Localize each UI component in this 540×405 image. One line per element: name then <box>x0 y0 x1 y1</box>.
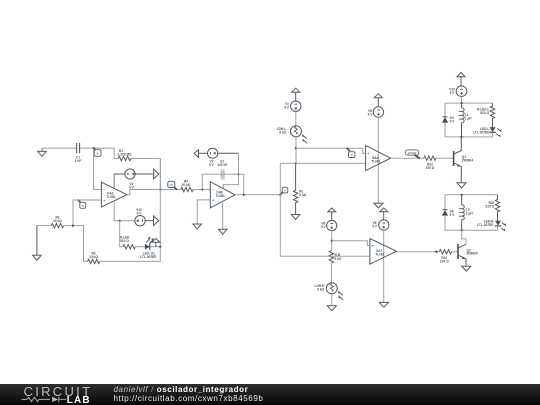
inductor L1 <box>459 103 464 137</box>
LED LED-R <box>477 220 506 232</box>
svg-text:2N3904: 2N3904 <box>467 252 478 256</box>
voltage source V3 <box>291 101 301 111</box>
ground <box>33 226 42 261</box>
wire <box>295 137 297 164</box>
resistor R12 <box>439 250 451 254</box>
junction <box>279 194 281 196</box>
svg-text:V1: V1 <box>81 204 85 208</box>
FOOTER <box>0 384 540 405</box>
wire (upper box left edge) <box>444 103 446 116</box>
wire (V8 supply through OA7) <box>383 230 385 302</box>
junction <box>237 173 239 175</box>
wire <box>436 157 453 159</box>
capacitor C1 <box>77 143 80 153</box>
svg-text:100 Ω: 100 Ω <box>426 166 435 170</box>
ground <box>193 224 202 229</box>
svg-text:HPWM: HPWM <box>408 151 417 155</box>
voltage source V1 <box>114 169 159 188</box>
resistor R2 <box>51 223 63 227</box>
voltage source V8 <box>379 220 389 230</box>
svg-text:+: + <box>103 199 105 203</box>
capacitor C2 <box>217 160 227 180</box>
svg-text:9 V: 9 V <box>321 225 327 229</box>
wire <box>452 251 458 253</box>
node Vt2 flag <box>347 148 355 158</box>
wire <box>80 148 118 158</box>
resistor R20 <box>495 195 499 222</box>
svg-text:9 V: 9 V <box>209 163 215 167</box>
wire (upper box right edge bottom) <box>492 133 494 137</box>
voltage source V2 <box>199 148 239 158</box>
svg-text:−: − <box>103 188 105 192</box>
svg-text:+: + <box>367 152 369 156</box>
svg-text:+: + <box>372 244 374 248</box>
UPPER RIGHT SECTION <box>277 88 473 219</box>
ground <box>457 183 466 188</box>
svg-text:LTL-307EE: LTL-307EE <box>140 255 156 259</box>
wire (to OA7 + input) <box>332 241 370 246</box>
wire <box>64 226 88 262</box>
resistor RL <box>293 163 297 214</box>
wire (to OA6 + input) <box>296 148 366 153</box>
junction <box>72 225 74 227</box>
node Vt flag <box>280 187 287 194</box>
V+ arrow... wire (lower box top edge) <box>445 194 498 196</box>
LED LED_A1 <box>140 237 156 259</box>
wire <box>193 189 210 191</box>
transistor Q2 <box>458 244 478 266</box>
wire (bus to OA7 - input, crossing R-B) <box>280 255 370 257</box>
svg-text:9 V: 9 V <box>450 119 456 123</box>
junction <box>295 162 297 164</box>
svg-text:510 Ω: 510 Ω <box>120 239 129 243</box>
resistor R-B <box>329 251 333 263</box>
wire (inverting node up to C2) <box>202 174 221 189</box>
wire (V5 supply through OA6) <box>377 117 379 203</box>
svg-text:Vt: Vt <box>284 189 287 193</box>
photoresistor LDR-R <box>326 283 343 300</box>
port arrow (V2 left terminal) <box>194 150 198 158</box>
wire anchor arrow <box>434 250 437 253</box>
resistor R3 <box>88 259 100 263</box>
wire (upper box top edge) <box>445 102 493 104</box>
op-amp OA2 top supply wire <box>113 174 115 188</box>
svg-text:1 µH: 1 µH <box>466 211 473 215</box>
wire (bus corner to OA6 - input) <box>280 162 365 164</box>
V+ arrow (V10) <box>457 72 465 86</box>
wire <box>444 216 446 231</box>
svg-text:9 V: 9 V <box>284 106 290 110</box>
resistor R-LED <box>123 245 135 249</box>
junction <box>461 194 463 196</box>
LEFT SECTION <box>33 143 181 264</box>
svg-text:LAB: LAB <box>67 395 91 405</box>
ground <box>462 266 471 271</box>
junction <box>159 246 161 248</box>
photoresistor LDR-L <box>291 126 308 144</box>
svg-text:9 V: 9 V <box>450 91 456 95</box>
wire <box>150 246 160 248</box>
wire (lower box right edge bottom) <box>497 227 499 231</box>
wire <box>444 123 446 137</box>
svg-text:9 V: 9 V <box>450 213 456 217</box>
svg-text:510 Ω: 510 Ω <box>480 111 489 115</box>
wire (R1 to output bus) <box>131 159 161 190</box>
junction <box>460 102 462 104</box>
op-amp OA8 bottom supply wire <box>222 203 224 230</box>
resistor R4 <box>181 187 193 191</box>
wire (to R-LED) <box>120 221 123 247</box>
svg-text:−: − <box>367 162 369 166</box>
svg-text:2N3904: 2N3904 <box>462 158 473 162</box>
wire (upper box bottom edge) <box>445 136 493 138</box>
wire <box>295 111 297 125</box>
wire (supply hook to op-amp top pin) <box>223 174 238 189</box>
ground <box>291 215 300 220</box>
op-amp OA2 bottom supply wire <box>114 201 135 221</box>
svg-text:9 kΩ: 9 kΩ <box>299 193 306 197</box>
svg-text:TL081: TL081 <box>371 159 380 163</box>
node VO flag <box>168 181 177 190</box>
wire (lower box left edge) <box>444 195 446 210</box>
zener diode D6 <box>442 209 455 217</box>
svg-text:9 kΩ: 9 kΩ <box>279 130 286 134</box>
svg-text:LTL-307EE: LTL-307EE <box>477 223 493 227</box>
zener diode D4 <box>442 116 455 124</box>
op-amp OA6 <box>366 145 391 170</box>
wire (C1 node to inverting input) <box>94 148 102 189</box>
wire <box>331 294 333 306</box>
ground <box>218 229 227 234</box>
junction <box>461 229 463 231</box>
wire (box to Q2 collector jog) <box>462 230 466 244</box>
node Vo flag <box>93 148 101 157</box>
svg-text:http://circuitlab.com/cxwn7xb8: http://circuitlab.com/cxwn7xb84569b <box>114 394 264 403</box>
V- arrow (below OA6) <box>374 203 383 208</box>
wire <box>330 263 332 283</box>
V+ arrow (V6) <box>328 208 336 221</box>
svg-text:9 V: 9 V <box>368 113 374 117</box>
svg-text:TL081: TL081 <box>216 194 225 198</box>
junction <box>119 220 121 222</box>
wire (OA8 output) <box>235 194 280 196</box>
svg-text:10 kΩ: 10 kΩ <box>53 219 62 223</box>
wire (C2 node to output) <box>239 174 244 195</box>
wire (output to VO net / R4) <box>130 189 181 191</box>
MIDDLE SECTION <box>168 148 288 256</box>
wire (+ input to ground) <box>197 200 210 224</box>
svg-text:1 nF: 1 nF <box>75 159 82 163</box>
svg-text:+: + <box>212 199 214 203</box>
V+ arrow at LED node <box>152 238 160 246</box>
LOWER MIDDLE SECTION <box>280 208 457 311</box>
wire (op-amp output step) <box>127 190 130 195</box>
V+ arrow (V5) <box>374 94 382 107</box>
svg-text:10 kΩ: 10 kΩ <box>89 255 98 259</box>
V+ arrow (V8) <box>380 208 388 220</box>
svg-text:2.276 MΩ: 2.276 MΩ <box>117 152 132 156</box>
voltage source V10b <box>135 216 159 226</box>
resistor R-LED-L <box>490 103 494 128</box>
junction <box>295 147 297 149</box>
svg-text:9 V: 9 V <box>372 224 378 228</box>
svg-text:9 kΩ: 9 kΩ <box>335 257 342 261</box>
wire (OA7 output) <box>396 251 439 253</box>
svg-text:100 Ω: 100 Ω <box>440 260 449 264</box>
svg-text:9 V: 9 V <box>137 212 143 216</box>
svg-text:9 V: 9 V <box>129 185 135 189</box>
svg-text:9 kΩ: 9 kΩ <box>317 288 324 292</box>
wire <box>461 97 463 104</box>
resistor R1 <box>118 156 131 160</box>
op-amp OA2 <box>101 182 127 207</box>
op-amp OA7 <box>370 239 397 265</box>
inductor L3 <box>459 195 464 231</box>
resistor R22 <box>424 156 436 160</box>
junction <box>331 240 333 242</box>
wire <box>135 246 145 248</box>
svg-text:VO: VO <box>169 183 173 187</box>
voltage source V5 <box>373 107 383 117</box>
wire <box>331 231 333 251</box>
svg-text:Vt: Vt <box>350 153 353 157</box>
svg-text:TL081: TL081 <box>106 195 115 199</box>
svg-text:−: − <box>372 255 374 259</box>
wire (R3 to feedback bus) <box>100 159 160 262</box>
wire (vertical bus x=280) <box>279 163 281 256</box>
wire <box>37 225 51 227</box>
voltage source V6 <box>327 220 337 230</box>
svg-text:1 µH: 1 µH <box>465 117 472 121</box>
wire <box>42 147 76 149</box>
svg-text:TL081: TL081 <box>375 253 384 257</box>
wire (OA6 output) <box>391 157 424 159</box>
LED LED-L <box>473 127 502 137</box>
node HPWM flag <box>405 150 420 159</box>
FAR RIGHT SECTION <box>442 72 506 271</box>
svg-text:120 nF: 120 nF <box>217 163 227 167</box>
junction <box>159 188 161 190</box>
wire (+ input) <box>73 200 101 226</box>
wire <box>225 173 239 175</box>
svg-text:20 kΩ: 20 kΩ <box>182 183 191 187</box>
node V1 flag <box>78 200 86 209</box>
junction <box>243 194 245 196</box>
svg-text:−: − <box>212 188 214 192</box>
V- arrow (below OA7) <box>379 302 388 307</box>
V- arrow <box>327 306 336 311</box>
svg-text:510 Ω: 510 Ω <box>486 205 495 209</box>
svg-text:danielvlf / oscilador_integrad: danielvlf / oscilador_integrador <box>114 385 249 394</box>
op-amp OA8 <box>210 182 235 208</box>
transistor Q1 <box>454 137 474 183</box>
V+ arrow <box>292 88 300 101</box>
wire (lower box bottom edge) <box>445 229 498 231</box>
junction <box>92 147 94 149</box>
voltage source V10 <box>456 86 467 97</box>
ground <box>38 148 47 156</box>
junction <box>460 136 462 138</box>
svg-text:LTL-307EE: LTL-307EE <box>473 130 489 134</box>
wire (V2 down to C2 node) <box>238 153 240 174</box>
junction <box>201 188 203 190</box>
